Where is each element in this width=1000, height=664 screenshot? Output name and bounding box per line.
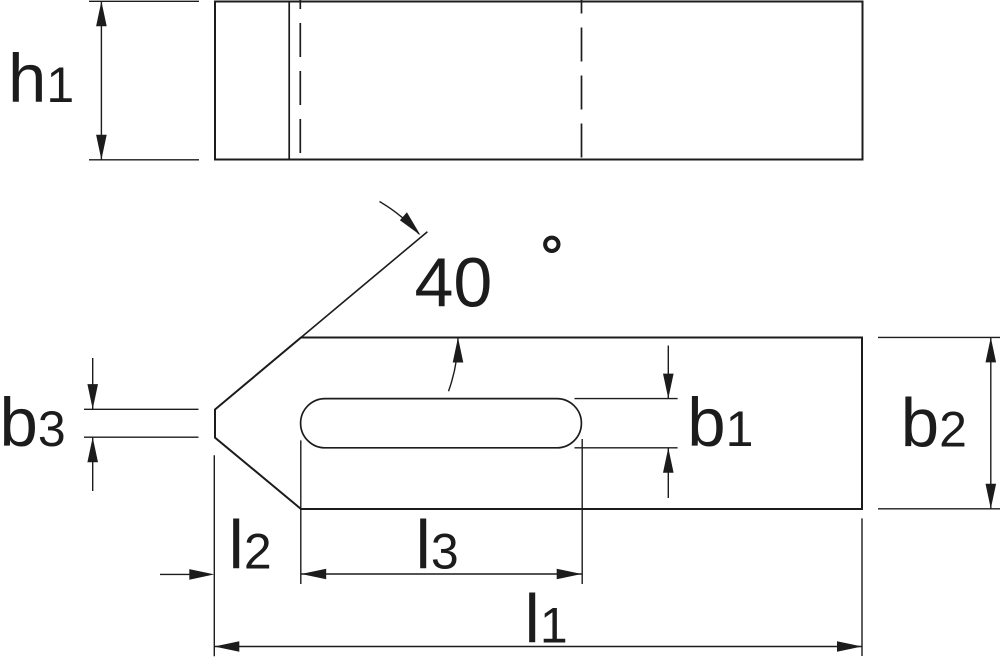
svg-text:l3: l3: [416, 507, 459, 584]
svg-text:b3: b3: [0, 384, 66, 461]
svg-text:b2: b2: [901, 384, 967, 461]
svg-text:b1: b1: [687, 384, 753, 461]
svg-text:l2: l2: [229, 507, 272, 584]
svg-text:40: 40: [415, 244, 493, 322]
svg-text:l1: l1: [525, 581, 568, 658]
svg-text:h1: h1: [8, 40, 74, 117]
